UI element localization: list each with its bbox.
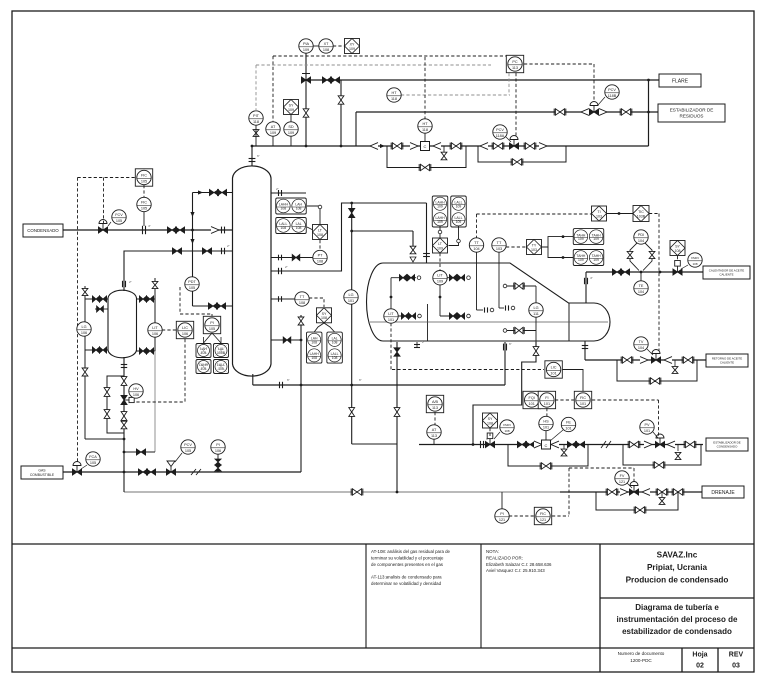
flange (505, 305, 507, 310)
alarm LALL-108/LAL-108 (276, 218, 307, 234)
valve PI root 2 (215, 465, 221, 471)
svg-text:103: 103 (496, 247, 502, 251)
wire drum V-106 vapor line (124, 251, 232, 291)
wire (440, 315, 465, 317)
wire (390, 278, 392, 309)
svg-text:108: 108 (487, 421, 493, 425)
signal to TI-103 (477, 213, 592, 215)
svg-text:106: 106 (215, 449, 221, 453)
valve v106 link (136, 449, 145, 455)
wire condensado feed line (63, 229, 232, 231)
svg-text:104: 104 (473, 247, 479, 251)
alarm TAHH-109 row1 (573, 229, 604, 245)
svg-text:PCV: PCV (184, 443, 192, 447)
instrument HS-101 (539, 416, 553, 430)
svg-text:105: 105 (141, 206, 147, 210)
vent open triangle (410, 257, 416, 262)
valve hot oil 2 (620, 269, 629, 275)
svg-text:118B: 118B (608, 94, 617, 98)
instrument LG-111 (529, 303, 543, 317)
wire bypass PCV-118A (478, 146, 566, 162)
wire (370, 321, 608, 323)
instrument HV-106 bubble (129, 384, 143, 398)
valve (449, 313, 456, 319)
instrument PI-121 (495, 509, 509, 523)
svg-text:PV: PV (644, 423, 650, 427)
svg-text:HV: HV (133, 387, 139, 391)
valve vent bypass (338, 96, 344, 104)
valve drum drain upper (394, 348, 400, 356)
svg-text:XT: XT (324, 42, 330, 46)
junction (340, 145, 343, 148)
svg-text:02: 02 (696, 663, 704, 670)
svg-text:4″: 4″ (148, 224, 151, 228)
wire (599, 544, 601, 672)
document number cell (618, 651, 744, 670)
tap end (438, 230, 442, 234)
valve drain 1 (351, 489, 363, 496)
signal PT to PC-113 (508, 73, 510, 95)
svg-text:109: 109 (288, 131, 294, 135)
svg-text:C: C (545, 443, 548, 448)
valve (401, 313, 408, 319)
junction (472, 443, 475, 446)
svg-text:LG: LG (348, 293, 353, 297)
junction (251, 145, 254, 148)
valve product block 4 (575, 441, 584, 447)
instrument LG-101 (344, 290, 358, 304)
svg-text:AT: AT (271, 125, 276, 129)
valve PT tap (292, 254, 300, 260)
vessel C-105 stabilizer column (233, 166, 272, 376)
svg-text:101: 101 (544, 402, 550, 406)
reducer retorno 2 (664, 357, 672, 364)
svg-text:2″: 2″ (129, 280, 132, 284)
instrument PCV-105 bubble (181, 440, 195, 454)
wire (476, 306, 478, 310)
svg-text:Numero de documento: Numero de documento (618, 651, 665, 656)
svg-text:TT: TT (497, 241, 502, 245)
valve feed block 1 (167, 227, 176, 233)
svg-text:108: 108 (311, 356, 317, 360)
flange column vapor (278, 190, 280, 196)
instrument LIC-106 (176, 321, 193, 338)
flange retorno (582, 345, 588, 347)
flange v106 bottom (121, 364, 127, 366)
svg-text:LIT: LIT (437, 274, 443, 278)
wire (717, 648, 719, 672)
svg-text:REALIZADO POR:: REALIZADO POR: (486, 555, 523, 560)
wire SD stem (290, 136, 292, 146)
instrument LIC-101 (545, 361, 562, 378)
valve retorno 1 (621, 357, 633, 364)
instrument TIC-103B (633, 206, 649, 222)
svg-text:113: 113 (432, 406, 438, 410)
wire (494, 432, 500, 439)
tap end (503, 284, 507, 288)
valve lower side a (208, 303, 217, 309)
wire tap 2 (95, 308, 108, 310)
wire condensate product line (419, 444, 703, 446)
valve v106 bypass 1 (104, 388, 110, 397)
signal LT to PT (319, 240, 321, 250)
wire riser to flare header (648, 80, 650, 146)
valve product vent hang (561, 449, 567, 456)
instrument LIT-106 (148, 323, 162, 337)
wire LIT tap upper (137, 298, 156, 300)
valve top side a (209, 189, 218, 195)
flange drum drain (414, 344, 420, 346)
svg-text:2″: 2″ (285, 265, 288, 269)
flow arrow down 2 (190, 239, 194, 244)
alarm LALL-105 (214, 360, 229, 374)
instrument FE-101 (561, 417, 575, 431)
control valve FV-121 (629, 482, 638, 496)
wire residuos line (356, 111, 658, 113)
wire product from drum boot (473, 342, 536, 445)
signal LIC down (184, 339, 186, 402)
svg-text:SD: SD (288, 125, 294, 129)
wire residuos takeoff (355, 112, 357, 146)
svg-text:109: 109 (303, 48, 309, 52)
valve (92, 296, 99, 302)
svg-text:LIC: LIC (182, 326, 188, 330)
flow arrow (198, 190, 203, 194)
wire bottoms riser to drum (504, 342, 506, 385)
svg-text:109: 109 (593, 258, 599, 262)
svg-text:109: 109 (437, 280, 443, 284)
reducer drain 2 (642, 489, 650, 496)
flange drum bottom feed (503, 344, 505, 351)
instrument XSDV-108 bubble (500, 420, 514, 434)
svg-text:PC: PC (512, 60, 518, 64)
reducer drain 1 (620, 489, 628, 496)
svg-text:TT: TT (300, 295, 305, 299)
wire (507, 285, 536, 287)
instrument FV-121 bubble (615, 471, 629, 485)
svg-text:109: 109 (578, 258, 584, 262)
signal TT-103 to TY (506, 246, 526, 248)
alarm LAH/LAHH-108 (306, 332, 322, 363)
tap end (503, 329, 507, 333)
wire (391, 277, 416, 279)
valve bypass C (419, 164, 431, 171)
svg-text:108: 108 (323, 48, 329, 52)
wire LIT drain gray (154, 351, 156, 452)
shutdown valve hot oil (673, 261, 682, 276)
wire (643, 243, 652, 271)
valve hot oil 1 (612, 269, 621, 275)
hand control station C (421, 142, 430, 151)
valve (407, 275, 414, 281)
svg-text:FLARE: FLARE (672, 78, 689, 84)
valve v106 bypass 2 (104, 410, 110, 419)
wire drum vent branch (352, 230, 413, 232)
wire (600, 597, 754, 599)
svg-text:PI: PI (500, 512, 504, 516)
svg-text:A/B: A/B (432, 400, 439, 404)
instrument TT-108 (295, 292, 309, 306)
svg-text:104: 104 (638, 346, 644, 350)
node CONDENSADO inlet (23, 224, 63, 237)
valve product block 3 (567, 441, 576, 447)
wire HS stem (545, 431, 547, 441)
wire product bypass (623, 445, 701, 466)
instrument FIC-101 (574, 391, 591, 408)
svg-text:105: 105 (201, 351, 207, 355)
svg-text:C: C (424, 144, 427, 149)
svg-text:101: 101 (543, 425, 549, 429)
flow arrow header (380, 144, 385, 148)
signal FI down to HS (546, 408, 548, 416)
shared display FIC-105 (135, 169, 152, 186)
svg-text:101: 101 (565, 426, 571, 430)
signal SY to valve (677, 256, 679, 263)
wire FE leader (550, 430, 563, 441)
svg-text:LIT: LIT (388, 312, 394, 316)
instrument PC-113 (506, 55, 523, 72)
instrument PIT-118 (249, 111, 263, 125)
valve product block 2 (525, 441, 534, 447)
instrument LIT-101 (384, 309, 398, 323)
orifice FE-105 (142, 226, 144, 234)
svg-text:108: 108 (299, 301, 305, 305)
wire drain bypass (596, 492, 678, 510)
wire drum feed drop (426, 203, 428, 263)
svg-text:PCV: PCV (496, 128, 504, 132)
node DRENAJE outlet (702, 486, 744, 498)
junction (390, 296, 393, 299)
wire (681, 648, 683, 672)
instrument PIA-109 (299, 39, 313, 53)
signal TIC out (649, 213, 659, 215)
wire PSV riser (305, 53, 307, 146)
instrument SD-109 (284, 122, 298, 136)
valve gas block 2 (146, 469, 155, 475)
node GAS COMBUSTIBLE inlet (21, 466, 63, 479)
wire PI bracket b (212, 333, 221, 343)
signal LT-101 to LIC-101 (392, 369, 544, 371)
svg-text:2″: 2″ (276, 187, 279, 191)
valve feed block 2 (175, 227, 184, 233)
wire reflux line (271, 203, 427, 271)
valve PDI left (627, 251, 633, 258)
junction (562, 256, 565, 259)
alarm LAHH-109 (432, 196, 448, 227)
instrument FCV-105 bubble (112, 210, 126, 224)
wire (535, 286, 537, 342)
signal HT-118 run (401, 94, 510, 96)
wire LG tap lower (85, 349, 108, 351)
svg-text:109: 109 (578, 237, 584, 241)
instrument SY-109 (284, 100, 299, 115)
wire (252, 374, 254, 385)
reducer product st 2 (667, 441, 675, 448)
instrument TV-104 bubble (634, 337, 648, 351)
svg-text:LG: LG (81, 325, 86, 329)
control valve PCV-105 (166, 461, 175, 475)
wire flare header (306, 79, 659, 81)
wire TE-104 stem (640, 272, 642, 281)
signal PDT to PI-105 v (179, 287, 181, 314)
valve (99, 296, 106, 302)
svg-text:FV: FV (620, 474, 625, 478)
instrument LT-108 lower (317, 308, 332, 323)
valve PDI right (649, 251, 655, 258)
valve (449, 275, 456, 281)
junction (123, 471, 126, 474)
wire PT-108 tap (271, 257, 313, 259)
control valve PV-101 (655, 434, 664, 448)
instrument SY-108 product (483, 413, 498, 428)
flange (278, 255, 280, 261)
alarm LAH-105 (196, 344, 211, 358)
svg-text:LIC: LIC (551, 366, 557, 370)
svg-text:ESTABILIZADOR DE: ESTABILIZADOR DE (670, 108, 714, 113)
node RETORNO DE ACEITE CALIENTE (706, 354, 748, 367)
svg-text:2″: 2″ (422, 340, 425, 344)
svg-text:Elizabeth Salazar C.I: 28.658.: Elizabeth Salazar C.I: 28.658.636 (486, 562, 552, 567)
valve (514, 327, 524, 334)
valve flare block 1 (322, 77, 331, 83)
alarm LAL/LALL-108 (327, 332, 343, 363)
wire vent bypass (340, 80, 342, 146)
junction (123, 438, 126, 441)
svg-text:106: 106 (182, 332, 188, 336)
wire bracket to LT-108 (307, 227, 313, 230)
instrument FCA-105 (86, 452, 100, 466)
wire (627, 483, 632, 488)
flange reflux (278, 268, 280, 274)
wire gas combustible line (63, 471, 301, 473)
svg-text:PIA: PIA (303, 42, 310, 46)
wire drum to retorno (584, 341, 586, 360)
valve standpipe lower (349, 408, 355, 417)
wire (661, 492, 663, 497)
signal PDT to PI-105 drop (211, 314, 213, 318)
valve top side b (217, 189, 226, 195)
wire (480, 544, 482, 648)
svg-text:LG: LG (533, 306, 538, 310)
instrument PCV-118B bubble (605, 85, 619, 99)
svg-text:GAS: GAS (38, 468, 46, 472)
junction (396, 491, 399, 494)
wire LG-106 standpipe (84, 286, 86, 439)
reducer product 1 (534, 441, 542, 448)
wire (598, 97, 605, 105)
wire LT bracket a (314, 323, 324, 332)
node residuos junction (647, 111, 650, 114)
wire FIC to orifice (143, 212, 145, 226)
tap end (418, 314, 422, 318)
svg-text:109: 109 (288, 108, 294, 112)
signal PC-113 to PCV-118A (515, 73, 517, 139)
valve lower side b (216, 303, 225, 309)
instrument AT-113 (427, 425, 441, 439)
svg-text:HT: HT (391, 91, 397, 95)
svg-text:109: 109 (437, 204, 443, 208)
signal LT-109 into drum (439, 253, 441, 270)
instrument LT-109 (433, 238, 448, 253)
tap end (467, 276, 471, 280)
valve retorno vent (672, 367, 678, 374)
signal FI to FIC (555, 399, 574, 401)
svg-text:DRENAJE: DRENAJE (711, 490, 735, 496)
wire reflux top line (193, 192, 233, 194)
wire drum drain drop (396, 342, 398, 492)
junction (350, 202, 353, 205)
wire hot oil supply (586, 271, 703, 273)
wire (477, 309, 484, 311)
instrument TI-103 (592, 206, 607, 221)
notes text AT-108 / AT-113 (371, 549, 451, 586)
svg-text:108: 108 (332, 356, 338, 360)
wire (302, 73, 310, 75)
wire PIA-XT link (313, 45, 319, 47)
flange (278, 296, 280, 302)
wire (499, 307, 504, 309)
svg-text:108: 108 (296, 207, 302, 211)
instrument LT-108 (313, 225, 328, 240)
svg-text:1200-PDC: 1200-PDC (630, 658, 652, 663)
signal PC-113 to PCV-118B (524, 63, 594, 65)
signal AB to AT (434, 412, 436, 425)
instrument PT-108 (313, 250, 327, 264)
svg-text:109: 109 (593, 237, 599, 241)
valve level tap (283, 337, 291, 343)
svg-text:118A: 118A (496, 134, 505, 138)
junction (350, 384, 353, 387)
junction (439, 296, 442, 299)
valve pcv block 3 (524, 143, 536, 150)
valve (399, 275, 406, 281)
signal LIC to HV (131, 401, 185, 403)
wire TT-103 dip (498, 252, 500, 305)
wire (305, 74, 307, 81)
instrument PCV-118A bubble (493, 125, 507, 139)
flange hot oil (584, 278, 586, 284)
svg-text:HS: HS (543, 420, 549, 424)
svg-text:Producion de condensado: Producion de condensado (626, 576, 729, 585)
flange V106 top (122, 281, 124, 287)
svg-text:105: 105 (189, 286, 195, 290)
instrument PV-101 bubble (640, 420, 654, 434)
wire (506, 137, 511, 142)
instrument FIC-105 (137, 197, 151, 211)
svg-text:6″: 6″ (257, 154, 260, 158)
svg-text:PI: PI (210, 321, 214, 325)
signal PDT to PI-105 h (180, 313, 212, 315)
wire (630, 243, 639, 271)
svg-text:108: 108 (504, 429, 509, 433)
wire left standpipe header (192, 193, 194, 307)
valve gas block 1 (138, 469, 147, 475)
wire (653, 432, 658, 438)
signal PI to FIC-121 (509, 515, 534, 517)
svg-text:FCV: FCV (115, 213, 123, 217)
valve drum drain lower (394, 408, 400, 417)
valve LIT vent (152, 281, 158, 288)
svg-text:AT-108: análisis del gas resid: AT-108: análisis del gas residual para d… (371, 549, 451, 554)
svg-text:109: 109 (456, 204, 462, 208)
signal FIC-101 out (592, 399, 659, 401)
svg-text:AT-113:analisis de condensado: AT-113:analisis de condensado para (371, 575, 442, 580)
svg-text:106: 106 (133, 393, 139, 397)
reducer residuos 1 (581, 109, 589, 116)
junction (123, 451, 126, 454)
alarm LAHH-105 (196, 360, 211, 374)
valve standpipe top (349, 208, 355, 217)
